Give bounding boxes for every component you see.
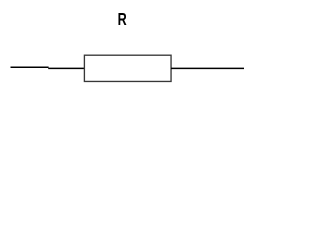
wire right segment	[171, 67, 244, 69]
resistor R	[84, 55, 171, 81]
svg-text:R: R	[118, 10, 127, 30]
label R	[118, 10, 127, 30]
wire left segment a	[11, 66, 49, 68]
wire left segment b	[48, 67, 84, 69]
